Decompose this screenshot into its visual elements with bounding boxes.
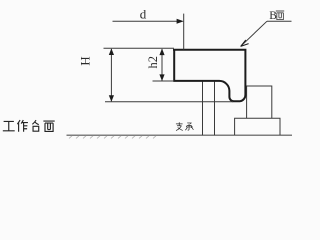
extension line bottom for H (105, 101, 233, 103)
part outline (thick) (173, 50, 245, 102)
H bottom arrow (109, 95, 114, 102)
H top arrow (109, 48, 114, 55)
extension line for d (vertical) (183, 14, 185, 50)
work table hatching (69, 136, 156, 139)
h2 bottom arrow (159, 74, 164, 81)
support block upper (thin rectangle) (247, 86, 272, 118)
support pillar left line (202, 82, 204, 136)
support pillar right line (214, 82, 216, 136)
dimension H line (110, 49, 112, 101)
svg-text:h2: h2 (146, 56, 160, 69)
h2 top arrow (159, 49, 164, 56)
text 支承 (176, 122, 194, 130)
dimension d line (113, 20, 181, 22)
B面 leader arrowhead (open) (241, 40, 249, 47)
text 工作台面 (3, 120, 55, 132)
d right arrow (177, 19, 184, 24)
svg-text:d: d (140, 6, 147, 21)
extension line bottom for h2 (153, 80, 175, 82)
extension line top (for H and h2) (104, 47, 175, 49)
B面 underline (267, 20, 292, 22)
support block lower (thin rectangle) (235, 118, 280, 135)
work table surface line (67, 134, 293, 136)
svg-text:B: B (269, 10, 277, 22)
B面 leader line (241, 21, 267, 46)
dimension h2 line (161, 49, 163, 81)
svg-text:H: H (78, 56, 93, 65)
